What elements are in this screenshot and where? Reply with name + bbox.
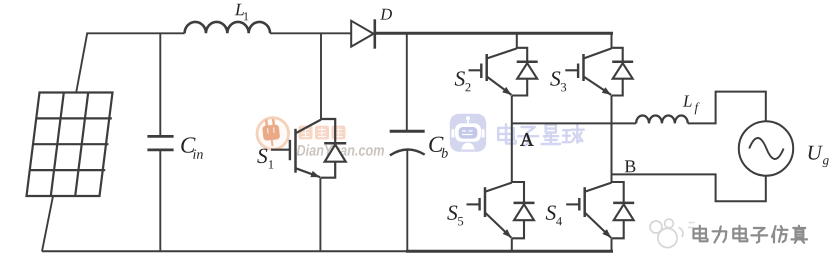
AC source Ug: [739, 121, 793, 175]
wire: L1 to diode D: [270, 32, 352, 34]
label S1: [257, 149, 267, 163]
label S5: [447, 205, 457, 219]
transistor S5: collector-diode bracket: [512, 182, 524, 203]
transistor S4: gate bar: [578, 198, 580, 211]
PV array panel: [27, 93, 113, 197]
watermark: grey mascot logo: [650, 219, 695, 247]
inductor Lf: [636, 116, 688, 124]
capacitor Cin: [159, 33, 161, 137]
wire: top rail to S3 collector: [611, 33, 613, 48]
transistor S4: body bar: [583, 187, 586, 217]
wire: bottom rail right (thick): [406, 250, 613, 253]
transistor S3: gate lead: [565, 69, 578, 71]
wire: PV negative lead: [42, 196, 53, 251]
wire: S1 emitter to bottom rail: [319, 178, 321, 252]
transistor S5: gate bar: [478, 198, 480, 211]
transistor S3: emitter-diode bracket: [612, 79, 623, 96]
label node A: [520, 133, 533, 146]
transistor S1: body bar: [294, 129, 297, 173]
transistor S4: collector lead: [585, 183, 612, 192]
transistor S1: collector lead: [296, 120, 322, 134]
diode of S3: triangle: [613, 63, 633, 78]
wire: top rail left: [86, 32, 184, 34]
label S2: [455, 71, 465, 85]
node A / wire to Lf: [512, 122, 636, 124]
diode of S2: cathode bar: [517, 61, 538, 64]
transistor S2: body bar: [485, 54, 488, 81]
diode of S4: cathode bar: [613, 202, 634, 205]
diode of S3: cathode bar: [612, 61, 633, 64]
transistor S3: collector-diode bracket: [612, 48, 623, 62]
transistor S2: collector-diode bracket: [517, 48, 527, 62]
inductor L1: [185, 22, 270, 33]
wire: leg A vertical: [511, 96, 513, 183]
label D: [380, 9, 392, 20]
watermark: blue robot logo: [450, 114, 486, 152]
transistor S1: gate lead: [271, 149, 290, 151]
label L1: [235, 4, 244, 15]
diode of S5: cathode bar: [514, 202, 535, 205]
wire: top rail to S2 collector: [516, 33, 518, 48]
transistor S3: emitter lead with arrow: [584, 77, 612, 95]
wire: bottom rail left: [42, 250, 406, 252]
transistor S5: body bar: [484, 187, 487, 217]
label S3: [550, 71, 560, 85]
transistor S1: collector-diode bracket: [321, 119, 335, 143]
wire: source bottom to node B: [612, 174, 766, 201]
diode of S4: triangle: [614, 204, 634, 220]
label node B: [625, 160, 636, 172]
watermark: DianYuan.com text: [297, 144, 384, 155]
label Ug: [809, 146, 823, 160]
diode of S2: triangle: [517, 63, 537, 78]
watermark: grey characters: [694, 226, 809, 244]
transistor S5: emitter-diode bracket: [512, 220, 524, 238]
transistor S5: gate lead: [467, 203, 480, 205]
capacitor Cb: [406, 33, 408, 131]
watermark: dianyuan.com logo circle: [257, 118, 289, 150]
diode of S5: triangle: [514, 204, 534, 220]
transistor S3: collector lead: [584, 48, 612, 58]
transistor S5: collector lead: [485, 183, 512, 192]
transistor S4: emitter lead with arrow: [585, 213, 611, 238]
diode D: [351, 21, 373, 47]
diode of S1: cathode bar: [324, 142, 346, 145]
watermark: dianyuan character boxes: [299, 126, 346, 140]
transistor S2: emitter lead with arrow: [487, 77, 512, 95]
diode of S1: triangle: [325, 145, 346, 162]
transistor S2: gate bar: [480, 64, 482, 79]
transistor S3: body bar: [582, 54, 585, 81]
wire: leg B vertical: [611, 96, 613, 183]
label S4: [546, 205, 556, 219]
transistor S4: emitter-diode bracket: [612, 220, 624, 238]
transistor S1: emitter lead with arrow: [296, 168, 321, 177]
transistor S1: emitter-diode bracket: [320, 162, 335, 178]
transistor S2: collector lead: [487, 48, 517, 58]
wire: PV positive lead: [76, 33, 87, 93]
label Lf: [683, 95, 692, 106]
wire: Lf to source top: [688, 92, 766, 124]
transistor S1: gate bar: [289, 140, 291, 160]
label Cin: [181, 137, 195, 152]
transistor S5: emitter lead with arrow: [485, 213, 511, 238]
watermark: blue characters: [498, 124, 584, 145]
transistor S4: collector-diode bracket: [612, 182, 624, 203]
transistor S4: gate lead: [566, 203, 579, 205]
transistor S2: gate lead: [469, 69, 482, 71]
wire: top rail right (thick): [375, 32, 613, 35]
wire: top rail to S1 collector: [320, 33, 322, 119]
wire: S5 emitter to bottom rail: [511, 238, 513, 252]
transistor S2: emitter-diode bracket: [512, 79, 527, 96]
transistor S3: gate bar: [577, 64, 579, 79]
label Cb: [429, 137, 443, 152]
wire: S4 emitter to bottom rail: [611, 238, 613, 252]
